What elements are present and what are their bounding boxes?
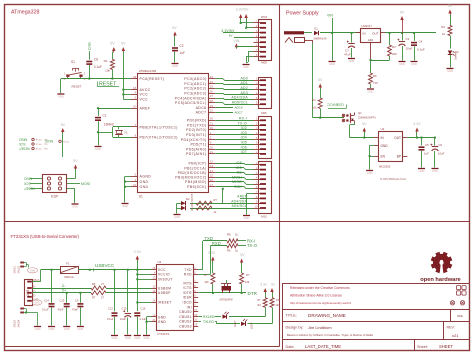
svg-text:CD1206-S01575: CD1206-S01575 bbox=[192, 193, 194, 211]
svg-text:12: 12 bbox=[152, 284, 155, 288]
svg-text:USBVCC: USBVCC bbox=[95, 263, 115, 268]
svg-text:M10: M10 bbox=[261, 214, 267, 218]
svg-text:GND: GND bbox=[399, 62, 405, 66]
svg-text:CBUS0: CBUS0 bbox=[179, 310, 192, 314]
svg-text:12: 12 bbox=[210, 160, 214, 164]
svg-text:SHLD4: SHLD4 bbox=[19, 319, 21, 327]
svg-text:R1: R1 bbox=[104, 59, 108, 63]
svg-text:ZXMN6A2X3PTA: ZXMN6A2X3PTA bbox=[358, 116, 376, 119]
svg-text:PD5(T1): PD5(T1) bbox=[190, 143, 206, 147]
svg-text:Released under the Creative Co: Released under the Creative Commons bbox=[290, 286, 350, 290]
svg-text:MISO: MISO bbox=[18, 137, 27, 141]
svg-text:47pF: 47pF bbox=[58, 308, 64, 312]
svg-text:0.1uF: 0.1uF bbox=[107, 317, 114, 321]
svg-text:AD4/SDA: AD4/SDA bbox=[231, 199, 247, 203]
svg-text:LED?: LED? bbox=[250, 322, 254, 329]
svg-text:23: 23 bbox=[210, 75, 214, 79]
svg-text:ATMEGA328: ATMEGA328 bbox=[139, 69, 157, 73]
svg-text:R6: R6 bbox=[92, 282, 96, 286]
svg-text:32: 32 bbox=[210, 126, 214, 130]
svg-text:C12: C12 bbox=[108, 307, 113, 311]
svg-text:GND: GND bbox=[381, 144, 389, 148]
svg-text:TX-O: TX-O bbox=[238, 121, 247, 125]
svg-text:IO5: IO5 bbox=[241, 141, 247, 145]
svg-text:5V: 5V bbox=[110, 42, 115, 46]
svg-text:PD0(RXD): PD0(RXD) bbox=[187, 119, 207, 123]
svg-text:GND: GND bbox=[447, 69, 453, 73]
svg-text:Date:: Date: bbox=[286, 345, 295, 349]
svg-text:ADJ: ADJ bbox=[368, 38, 374, 42]
svg-text:AD5/SCL: AD5/SCL bbox=[232, 204, 247, 208]
svg-text:1uF: 1uF bbox=[180, 51, 186, 55]
svg-text:IO7: IO7 bbox=[241, 150, 247, 154]
svg-text:!DSR: !DSR bbox=[183, 296, 192, 300]
svg-text:16MHz: 16MHz bbox=[104, 123, 115, 127]
svg-text:3V3OUT: 3V3OUT bbox=[158, 278, 173, 282]
svg-text:5V: 5V bbox=[448, 4, 453, 8]
svg-text:Y1: Y1 bbox=[124, 131, 128, 135]
svg-text:11: 11 bbox=[153, 289, 156, 293]
svg-text:USBDP: USBDP bbox=[158, 291, 171, 295]
svg-text:C10: C10 bbox=[122, 307, 127, 311]
svg-text:21: 21 bbox=[152, 318, 155, 322]
svg-text:3.3V/5V: 3.3V/5V bbox=[236, 7, 249, 11]
svg-text:PB2(SS/OC1B): PB2(SS/OC1B) bbox=[178, 171, 207, 175]
svg-text:VIN: VIN bbox=[233, 39, 239, 43]
svg-text:18: 18 bbox=[133, 86, 137, 90]
svg-text:OUT: OUT bbox=[394, 136, 401, 140]
svg-text:R8: R8 bbox=[227, 233, 231, 237]
svg-text:RESET: RESET bbox=[19, 146, 30, 150]
svg-text:5V: 5V bbox=[400, 11, 405, 15]
svg-text:TP5: TP5 bbox=[44, 144, 47, 146]
svg-text:PB0(ICP): PB0(ICP) bbox=[189, 162, 207, 166]
svg-text:U3: U3 bbox=[157, 260, 161, 264]
svg-text:R?: R? bbox=[246, 273, 250, 277]
svg-text:AD0: AD0 bbox=[241, 76, 249, 80]
svg-text:PC6(RESET): PC6(RESET) bbox=[140, 77, 165, 81]
svg-text:IO3: IO3 bbox=[241, 131, 247, 135]
svg-text:Attribution Share-Alike 3.0 Li: Attribution Share-Alike 3.0 License bbox=[290, 294, 342, 298]
svg-text:IO8: IO8 bbox=[236, 161, 242, 165]
svg-text:16: 16 bbox=[210, 178, 214, 182]
svg-text:5V: 5V bbox=[240, 253, 245, 257]
svg-text:TP6: TP6 bbox=[44, 149, 47, 151]
svg-text:14: 14 bbox=[210, 169, 214, 173]
svg-text:SCK: SCK bbox=[23, 181, 30, 185]
svg-text:ATmega328: ATmega328 bbox=[11, 10, 40, 16]
svg-text:GND: GND bbox=[329, 62, 335, 66]
svg-text:MBRA140: MBRA140 bbox=[314, 37, 327, 41]
svg-text:4k7: 4k7 bbox=[276, 304, 281, 307]
svg-text:10uF: 10uF bbox=[438, 152, 445, 156]
svg-text:GND: GND bbox=[244, 216, 250, 220]
svg-text:RXLED: RXLED bbox=[203, 315, 215, 319]
svg-text:SHLD1: SHLD1 bbox=[15, 265, 17, 273]
svg-text:AREF: AREF bbox=[237, 195, 247, 199]
svg-text:FT231XS (USB-to-Serial Convert: FT231XS (USB-to-Serial Converter) bbox=[11, 234, 80, 239]
svg-text:AD4/SDA: AD4/SDA bbox=[231, 96, 248, 100]
svg-text:D+: D+ bbox=[62, 289, 66, 293]
svg-text:GND: GND bbox=[419, 169, 425, 173]
svg-text:AD3: AD3 bbox=[241, 91, 249, 95]
svg-text:GND: GND bbox=[72, 204, 78, 208]
svg-text:21: 21 bbox=[133, 183, 137, 187]
svg-text:TXLED: TXLED bbox=[203, 320, 214, 324]
svg-text:17: 17 bbox=[194, 308, 197, 312]
svg-text:PD3(INT1): PD3(INT1) bbox=[186, 133, 206, 137]
svg-text:10: 10 bbox=[210, 145, 214, 149]
svg-text:TITLE:: TITLE: bbox=[286, 314, 297, 318]
svg-text:C14: C14 bbox=[44, 298, 49, 302]
svg-text:PB1(OC1A): PB1(OC1A) bbox=[184, 166, 206, 170]
svg-text:open hardware: open hardware bbox=[420, 277, 460, 283]
svg-text:VCC: VCC bbox=[140, 98, 149, 102]
svg-text:0.1uF: 0.1uF bbox=[94, 65, 102, 69]
svg-text:GND: GND bbox=[95, 147, 101, 151]
svg-text:USBVCC: USBVCC bbox=[327, 103, 344, 108]
svg-text:PD7(AIN1): PD7(AIN1) bbox=[186, 152, 207, 156]
svg-text:C1: C1 bbox=[103, 114, 107, 118]
svg-text:3.3V: 3.3V bbox=[134, 250, 142, 254]
svg-text:18: 18 bbox=[152, 313, 155, 317]
svg-text:C2: C2 bbox=[180, 44, 184, 48]
svg-text:!RESET: !RESET bbox=[158, 301, 172, 305]
svg-text:R3: R3 bbox=[392, 45, 396, 49]
svg-text:R2: R2 bbox=[441, 25, 445, 29]
svg-text:22: 22 bbox=[210, 109, 214, 113]
svg-text:MOSI: MOSI bbox=[232, 175, 242, 179]
svg-text:PC2(ADC2): PC2(ADC2) bbox=[184, 87, 206, 91]
svg-text:RX-I: RX-I bbox=[239, 117, 247, 121]
svg-text:CBUS1: CBUS1 bbox=[179, 315, 192, 319]
svg-text:19: 19 bbox=[194, 323, 197, 327]
svg-text:GND: GND bbox=[368, 89, 374, 93]
svg-text:16: 16 bbox=[194, 313, 197, 317]
svg-text:S1: S1 bbox=[71, 60, 75, 64]
svg-text:Based on Arduino by: M.Banzi,: Based on Arduino by: M.Banzi, D.Cuartiel… bbox=[287, 333, 374, 337]
svg-text:F1: F1 bbox=[66, 262, 70, 266]
svg-text:47uF: 47uF bbox=[344, 53, 351, 57]
svg-text:TP-1x1: TP-1x1 bbox=[63, 141, 69, 143]
svg-text:VIN: VIN bbox=[327, 14, 333, 18]
svg-text:VCCIO: VCCIO bbox=[158, 273, 170, 277]
svg-text:http://creativecommons.org/lic: http://creativecommons.org/licenses/by-s… bbox=[290, 301, 351, 305]
svg-text:17: 17 bbox=[210, 183, 214, 187]
svg-text:Power Supply: Power Supply bbox=[286, 11, 319, 17]
svg-text:10: 10 bbox=[194, 318, 197, 322]
svg-text:M08: M08 bbox=[261, 61, 267, 65]
svg-text:PB6(XTAL1/TOSC1): PB6(XTAL1/TOSC1) bbox=[140, 125, 178, 129]
svg-text:GND: GND bbox=[432, 169, 438, 173]
svg-text:GND: GND bbox=[125, 336, 131, 340]
svg-text:19: 19 bbox=[210, 104, 214, 108]
svg-text:0.1uF: 0.1uF bbox=[417, 48, 425, 52]
svg-text:ADC7: ADC7 bbox=[235, 111, 243, 115]
svg-text:PB3(MOSI/OC2): PB3(MOSI/OC2) bbox=[175, 176, 206, 180]
svg-text:IO6: IO6 bbox=[241, 145, 247, 149]
svg-text:IO4: IO4 bbox=[241, 136, 247, 140]
svg-text:30: 30 bbox=[210, 117, 214, 121]
svg-text:SHLD2: SHLD2 bbox=[19, 265, 21, 273]
svg-text:MOSI: MOSI bbox=[45, 139, 53, 143]
svg-text:PD2(INT0): PD2(INT0) bbox=[186, 128, 206, 132]
svg-text:3.3V/150mA-Out: 3.3V/150mA-Out bbox=[380, 177, 406, 181]
svg-text:JP10: JP10 bbox=[261, 15, 268, 19]
svg-text:15: 15 bbox=[152, 266, 155, 270]
svg-text:24: 24 bbox=[210, 80, 214, 84]
svg-text:GND: GND bbox=[174, 215, 180, 219]
svg-text:R?: R? bbox=[204, 273, 208, 277]
svg-text:5V: 5V bbox=[172, 26, 177, 30]
svg-text:4k7: 4k7 bbox=[257, 304, 262, 307]
svg-text:C4: C4 bbox=[419, 40, 423, 44]
svg-text:RESET: RESET bbox=[71, 85, 81, 89]
svg-text:AD2: AD2 bbox=[241, 86, 249, 90]
svg-text:ADC7: ADC7 bbox=[196, 111, 207, 115]
svg-text:2N7002PW: 2N7002PW bbox=[219, 298, 233, 302]
svg-text:Jim Lindblom: Jim Lindblom bbox=[308, 325, 332, 330]
svg-text:10k: 10k bbox=[105, 69, 110, 73]
svg-text:PB4(MISO): PB4(MISO) bbox=[185, 180, 207, 184]
svg-text:MOSI: MOSI bbox=[81, 182, 90, 186]
svg-text:27: 27 bbox=[210, 94, 214, 98]
svg-text:PD6(AIN0): PD6(AIN0) bbox=[186, 147, 207, 151]
svg-text:0.1uF: 0.1uF bbox=[140, 317, 147, 321]
svg-text:ADC6: ADC6 bbox=[196, 106, 207, 110]
svg-text:TP-1x1: TP-1x1 bbox=[36, 144, 42, 146]
svg-text:5V: 5V bbox=[318, 78, 323, 82]
svg-text:R6: R6 bbox=[373, 74, 377, 78]
svg-text:5V: 5V bbox=[73, 159, 78, 163]
svg-text:240: 240 bbox=[392, 52, 397, 56]
svg-text:15: 15 bbox=[210, 173, 214, 177]
svg-text:SFE: SFE bbox=[457, 314, 463, 318]
svg-text:D1: D1 bbox=[314, 27, 318, 31]
svg-text:GND: GND bbox=[140, 180, 149, 184]
svg-text:MISO: MISO bbox=[232, 180, 242, 184]
svg-text:PD4(XCK/T0): PD4(XCK/T0) bbox=[181, 138, 207, 142]
svg-text:!DTR: !DTR bbox=[183, 291, 192, 295]
svg-text:!RTS: !RTS bbox=[183, 281, 192, 285]
svg-text:!CTS: !CTS bbox=[183, 286, 192, 290]
svg-text:SHEET: SHEET bbox=[439, 344, 453, 349]
svg-text:10k: 10k bbox=[204, 280, 209, 284]
svg-text:SCK: SCK bbox=[234, 185, 242, 189]
svg-text:5V: 5V bbox=[362, 122, 367, 126]
svg-text:D2: D2 bbox=[186, 197, 190, 201]
svg-text:MIC5205: MIC5205 bbox=[379, 165, 391, 169]
svg-text:ADC6: ADC6 bbox=[235, 106, 243, 110]
svg-text:GND: GND bbox=[35, 327, 41, 331]
svg-text:BP: BP bbox=[397, 155, 401, 159]
svg-text:OUT: OUT bbox=[372, 32, 379, 36]
svg-text:25: 25 bbox=[210, 85, 214, 89]
svg-text:GND: GND bbox=[34, 302, 40, 305]
svg-text:C6: C6 bbox=[439, 143, 443, 147]
svg-text:R9: R9 bbox=[227, 249, 231, 253]
svg-text:PC0(ADC0): PC0(ADC0) bbox=[184, 77, 206, 81]
svg-text:3.3v: 3.3v bbox=[260, 283, 267, 287]
svg-text:GND: GND bbox=[140, 185, 149, 189]
svg-text:CBUS2: CBUS2 bbox=[179, 320, 192, 324]
svg-text:GND: GND bbox=[30, 269, 36, 272]
svg-text:M06: M06 bbox=[261, 111, 267, 115]
svg-text:26: 26 bbox=[210, 89, 214, 93]
svg-text:C8: C8 bbox=[94, 58, 98, 62]
svg-text:13: 13 bbox=[210, 164, 214, 168]
svg-text:GND: GND bbox=[349, 59, 355, 63]
svg-text:GND: GND bbox=[49, 327, 55, 331]
svg-text:GND: GND bbox=[367, 171, 373, 175]
svg-text:5V: 5V bbox=[229, 34, 233, 38]
svg-text:5V: 5V bbox=[121, 42, 126, 46]
svg-text:AD1: AD1 bbox=[241, 81, 249, 85]
svg-text:PB5(SCK): PB5(SCK) bbox=[187, 185, 206, 189]
svg-text:PB7(XTAL2/TOSC2): PB7(XTAL2/TOSC2) bbox=[140, 136, 178, 140]
svg-text:3.3V: 3.3V bbox=[208, 251, 216, 255]
svg-text:RXD: RXD bbox=[184, 273, 192, 277]
svg-text:C5: C5 bbox=[425, 143, 429, 147]
svg-text:PC3(ADC3): PC3(ADC3) bbox=[184, 92, 206, 96]
svg-text:IO9: IO9 bbox=[236, 166, 242, 170]
svg-text:PD1(TXD): PD1(TXD) bbox=[187, 123, 206, 127]
svg-text:D-: D- bbox=[62, 284, 65, 288]
svg-text:3.3V: 3.3V bbox=[413, 122, 421, 126]
svg-text:47pF: 47pF bbox=[72, 308, 78, 312]
svg-text:5V: 5V bbox=[61, 123, 66, 127]
svg-text:TP-1x1: TP-1x1 bbox=[36, 140, 42, 142]
svg-text:14: 14 bbox=[152, 299, 155, 303]
svg-text:VCC: VCC bbox=[158, 268, 166, 272]
svg-text:5v: 5v bbox=[271, 283, 275, 287]
svg-text:LM1117: LM1117 bbox=[362, 24, 373, 28]
svg-text:13: 13 bbox=[152, 276, 155, 280]
svg-text:FT231XS: FT231XS bbox=[157, 332, 169, 336]
svg-text:PC4(ADC4/SDA): PC4(ADC4/SDA) bbox=[175, 96, 207, 100]
svg-text:!RI: !RI bbox=[187, 305, 192, 309]
svg-text:PC5(ADC5/SCL): PC5(ADC5/SCL) bbox=[175, 101, 206, 105]
svg-text:EN: EN bbox=[381, 155, 386, 159]
svg-text:R7: R7 bbox=[92, 296, 96, 300]
svg-text:AGND: AGND bbox=[140, 175, 152, 179]
svg-text:U1: U1 bbox=[139, 195, 143, 199]
svg-text:GND: GND bbox=[134, 336, 140, 340]
svg-text:DTR: DTR bbox=[88, 42, 92, 50]
svg-text:10uF: 10uF bbox=[406, 47, 413, 51]
svg-text:C13: C13 bbox=[60, 298, 65, 302]
svg-text:GND: GND bbox=[411, 62, 417, 66]
svg-text:Green: Green bbox=[454, 52, 458, 60]
svg-text:!DCD: !DCD bbox=[183, 301, 193, 305]
svg-text:1uF: 1uF bbox=[424, 152, 429, 156]
svg-text:R4: R4 bbox=[312, 98, 316, 102]
svg-text:715: 715 bbox=[373, 81, 378, 85]
svg-text:USBDM: USBDM bbox=[158, 286, 171, 290]
svg-text:ICSP: ICSP bbox=[51, 195, 58, 199]
svg-text:IO2: IO2 bbox=[241, 126, 247, 130]
svg-text:TX-O: TX-O bbox=[247, 243, 258, 248]
svg-text:10k: 10k bbox=[245, 280, 250, 284]
svg-text:LED?: LED? bbox=[233, 320, 237, 327]
svg-text:GND: GND bbox=[64, 327, 70, 331]
svg-text:C9: C9 bbox=[75, 298, 79, 302]
svg-text:Sheet:: Sheet: bbox=[417, 345, 428, 349]
svg-text:GND: GND bbox=[78, 327, 84, 331]
svg-text:GND: GND bbox=[144, 336, 150, 340]
svg-text:PC1(ADC1): PC1(ADC1) bbox=[184, 82, 206, 86]
svg-text:Q1: Q1 bbox=[358, 111, 362, 115]
svg-text:29: 29 bbox=[133, 75, 137, 79]
svg-text:AVCC: AVCC bbox=[140, 88, 151, 92]
svg-text:DRAWING_NAME: DRAWING_NAME bbox=[308, 313, 346, 318]
svg-text:500mA: 500mA bbox=[64, 275, 74, 279]
svg-text:28: 28 bbox=[210, 99, 214, 103]
svg-text:IN: IN bbox=[363, 32, 366, 36]
svg-text:C3: C3 bbox=[406, 37, 410, 41]
svg-text:v21: v21 bbox=[452, 333, 459, 338]
svg-text:ID: ID bbox=[33, 294, 36, 297]
svg-text:REV:: REV: bbox=[447, 326, 455, 330]
svg-text:0.1uF: 0.1uF bbox=[42, 308, 49, 312]
svg-text:SHLD3: SHLD3 bbox=[15, 319, 17, 327]
svg-text:GND: GND bbox=[243, 65, 249, 69]
svg-text:GND: GND bbox=[112, 336, 118, 340]
svg-text:GND: GND bbox=[58, 94, 64, 98]
svg-text:10uF: 10uF bbox=[120, 317, 126, 321]
svg-text:AD5/SCL: AD5/SCL bbox=[232, 100, 248, 104]
svg-text:AREF: AREF bbox=[140, 107, 151, 111]
svg-text:U2: U2 bbox=[381, 127, 385, 131]
svg-text:R?: R? bbox=[214, 198, 218, 202]
svg-text:20: 20 bbox=[133, 104, 137, 108]
svg-text:TP-1x1: TP-1x1 bbox=[36, 149, 42, 151]
svg-text:VCC: VCC bbox=[140, 93, 149, 97]
svg-text:GND: GND bbox=[122, 204, 128, 208]
svg-text:GND: GND bbox=[158, 320, 167, 324]
svg-text:LAST_DATE_TIME: LAST_DATE_TIME bbox=[305, 344, 341, 349]
svg-text:10k: 10k bbox=[312, 106, 317, 110]
svg-text:31: 31 bbox=[210, 121, 214, 125]
svg-text:SS: SS bbox=[237, 171, 243, 175]
svg-text:Design by:: Design by: bbox=[286, 326, 304, 330]
svg-text:11: 11 bbox=[210, 150, 213, 154]
svg-text:C16: C16 bbox=[141, 307, 146, 311]
svg-text:SCK: SCK bbox=[18, 142, 25, 146]
svg-text:TXD: TXD bbox=[184, 268, 192, 272]
svg-text:CBUS3: CBUS3 bbox=[179, 325, 192, 329]
svg-text:DTR: DTR bbox=[248, 291, 258, 296]
svg-text:GND: GND bbox=[172, 64, 178, 68]
svg-text:GND: GND bbox=[158, 315, 167, 319]
